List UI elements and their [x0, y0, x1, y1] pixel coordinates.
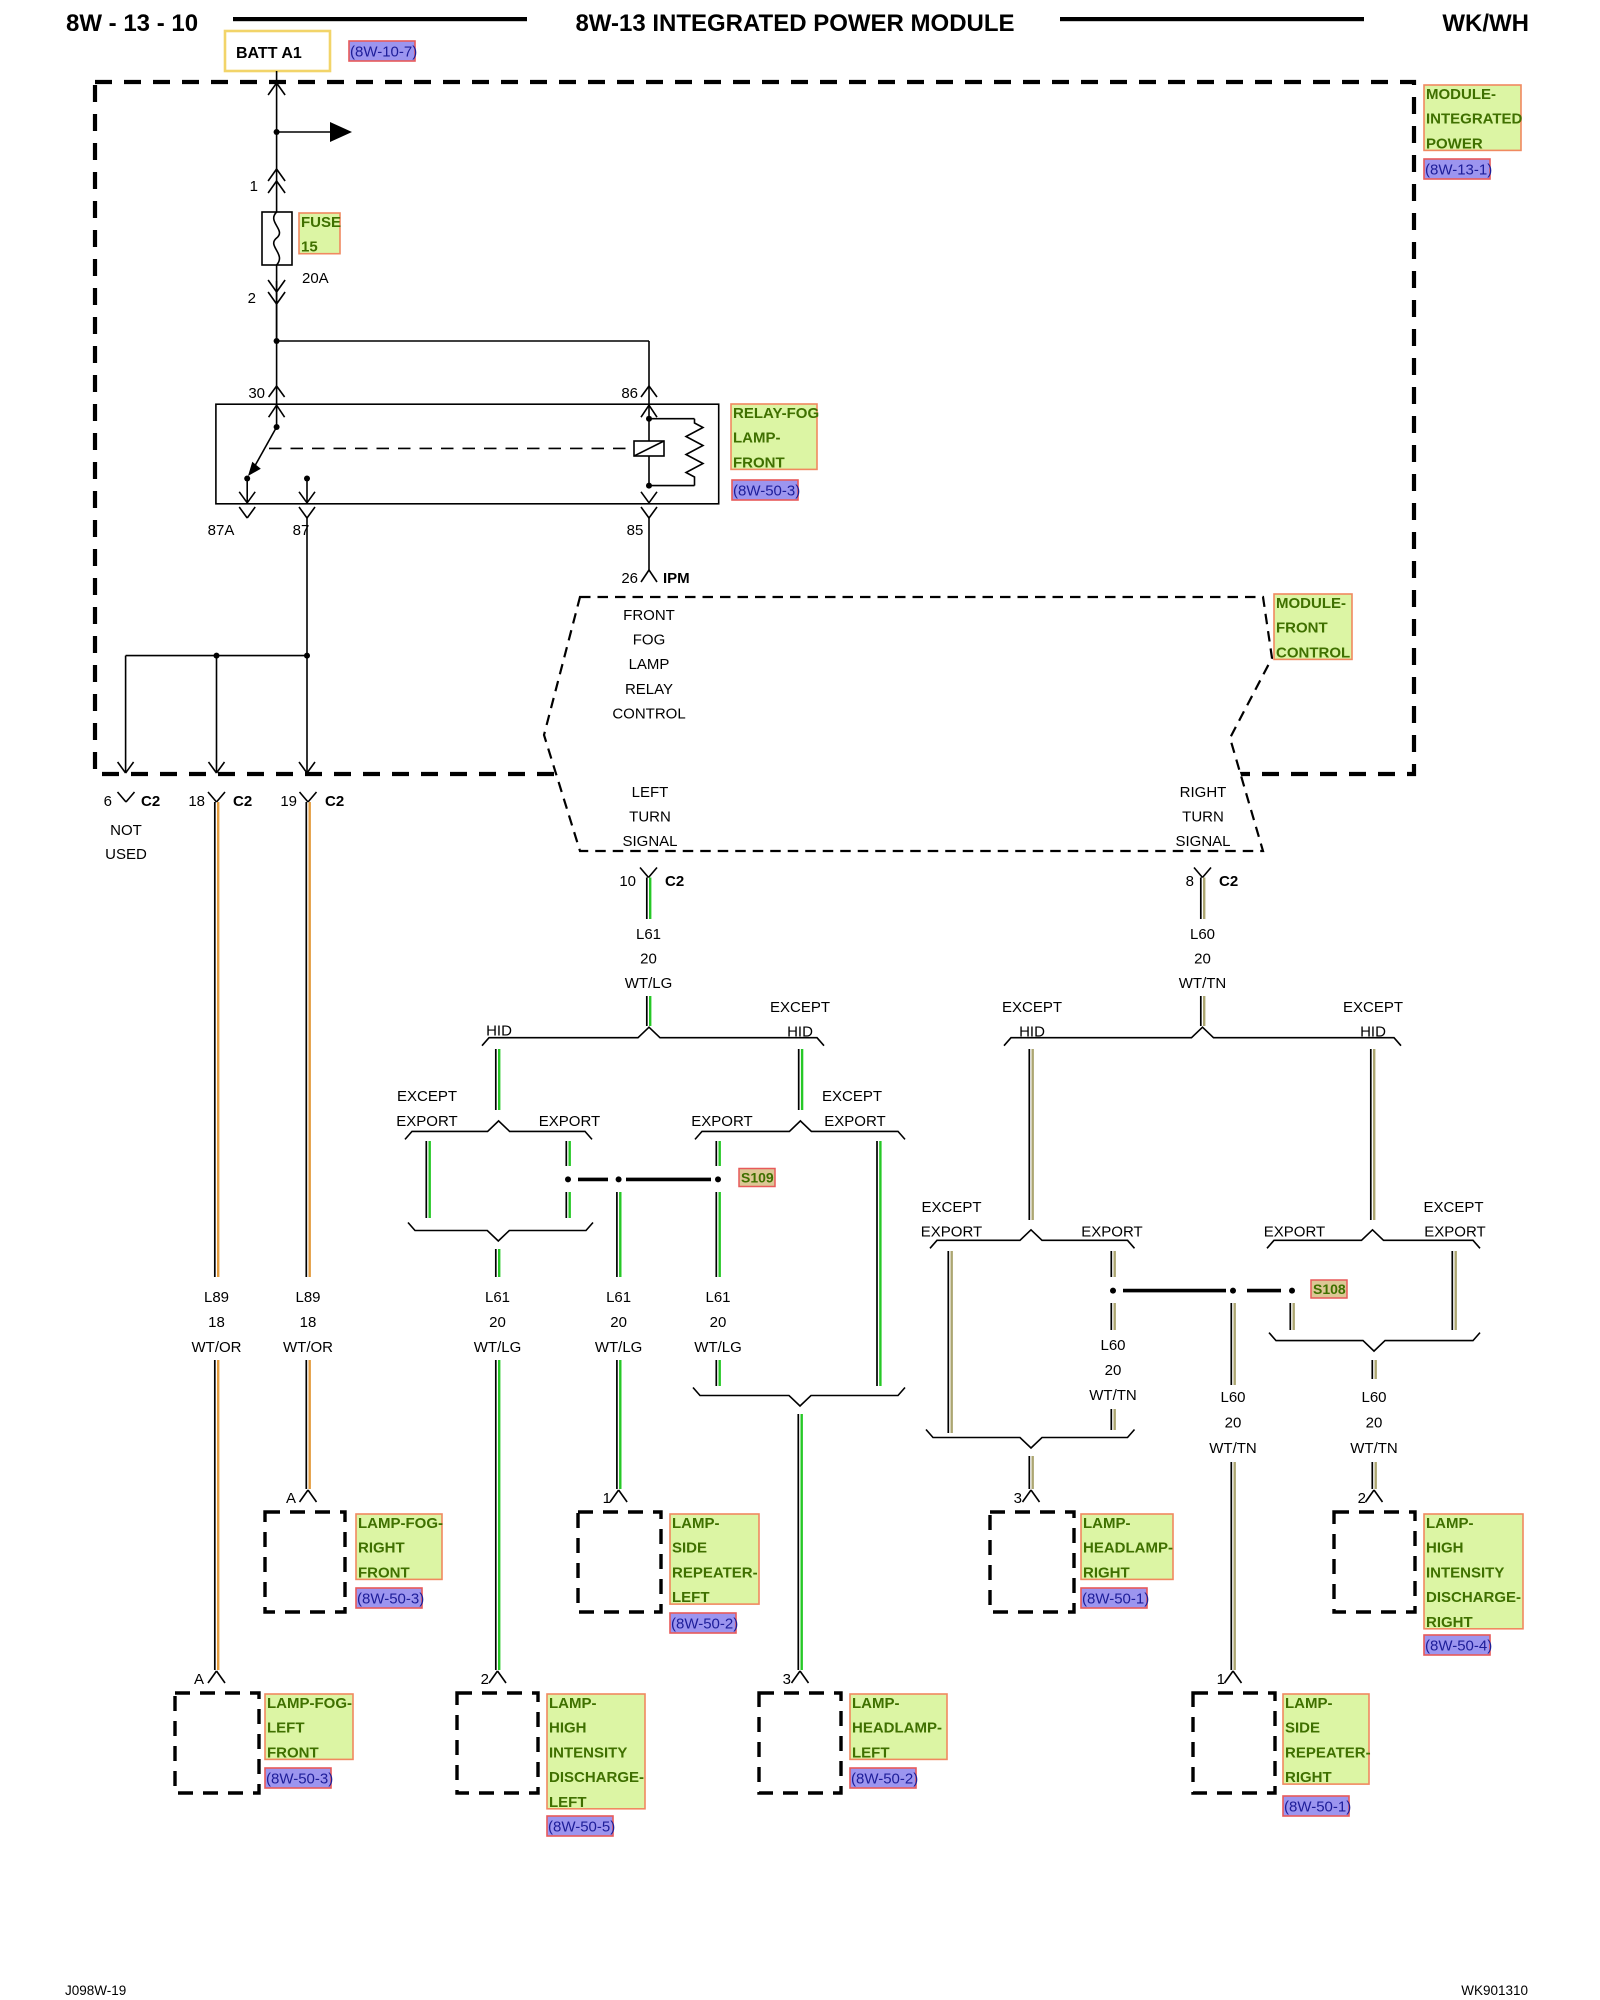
svg-text:CONTROL: CONTROL — [1276, 644, 1350, 661]
svg-text:LAMP-FOG-: LAMP-FOG- — [358, 1515, 443, 1532]
svg-text:2: 2 — [481, 1671, 489, 1688]
svg-text:S108: S108 — [1313, 1281, 1346, 1297]
svg-text:L60: L60 — [1190, 926, 1215, 943]
svg-text:3: 3 — [1014, 1490, 1022, 1507]
svg-text:L60: L60 — [1100, 1337, 1125, 1354]
svg-text:1: 1 — [1217, 1671, 1225, 1688]
svg-text:IPM: IPM — [663, 570, 690, 587]
svg-text:L61: L61 — [606, 1289, 631, 1306]
svg-text:HID: HID — [1019, 1024, 1045, 1041]
svg-text:WT/TN: WT/TN — [1179, 975, 1226, 992]
svg-text:(8W-50-3): (8W-50-3) — [357, 1591, 424, 1608]
svg-text:RELAY-FOG: RELAY-FOG — [733, 405, 819, 422]
svg-text:(8W-50-3): (8W-50-3) — [733, 483, 800, 500]
svg-text:WT/LG: WT/LG — [625, 975, 673, 992]
svg-text:RELAY: RELAY — [625, 681, 673, 698]
svg-text:EXCEPT: EXCEPT — [397, 1088, 457, 1105]
svg-text:DISCHARGE-: DISCHARGE- — [1426, 1589, 1521, 1606]
svg-text:INTEGRATED: INTEGRATED — [1426, 111, 1523, 128]
svg-text:FRONT: FRONT — [1276, 620, 1328, 637]
svg-text:WK901310: WK901310 — [1461, 1983, 1528, 1998]
svg-text:L61: L61 — [636, 926, 661, 943]
svg-text:EXPORT: EXPORT — [1081, 1223, 1142, 1240]
svg-text:A: A — [194, 1671, 204, 1688]
svg-text:20: 20 — [1194, 951, 1211, 968]
svg-text:1: 1 — [250, 178, 258, 195]
svg-text:L61: L61 — [485, 1289, 510, 1306]
svg-text:19: 19 — [280, 793, 297, 810]
svg-text:(8W-50-5): (8W-50-5) — [548, 1819, 615, 1836]
svg-text:EXCEPT: EXCEPT — [1343, 999, 1403, 1016]
svg-text:INTENSITY: INTENSITY — [549, 1744, 627, 1761]
svg-text:REPEATER-: REPEATER- — [1285, 1744, 1371, 1761]
svg-text:C2: C2 — [665, 873, 684, 890]
svg-text:REPEATER-: REPEATER- — [672, 1564, 758, 1581]
svg-text:10: 10 — [619, 873, 636, 890]
svg-text:LAMP-: LAMP- — [672, 1515, 720, 1532]
svg-text:LAMP-: LAMP- — [733, 430, 781, 447]
svg-text:20: 20 — [710, 1314, 727, 1331]
svg-text:20: 20 — [610, 1314, 627, 1331]
svg-text:SIGNAL: SIGNAL — [1175, 833, 1230, 850]
svg-text:RIGHT: RIGHT — [1083, 1564, 1130, 1581]
svg-text:EXCEPT: EXCEPT — [822, 1088, 882, 1105]
svg-text:EXCEPT: EXCEPT — [1002, 999, 1062, 1016]
svg-text:8W - 13 - 10: 8W - 13 - 10 — [66, 10, 198, 37]
svg-text:WT/TN: WT/TN — [1209, 1440, 1256, 1457]
svg-text:LAMP: LAMP — [629, 656, 670, 673]
svg-text:3: 3 — [783, 1671, 791, 1688]
svg-text:30: 30 — [248, 385, 265, 402]
svg-text:WK/WH: WK/WH — [1442, 10, 1529, 37]
svg-text:WT/OR: WT/OR — [192, 1339, 242, 1356]
svg-text:BATT A1: BATT A1 — [236, 45, 302, 62]
svg-text:L60: L60 — [1220, 1389, 1245, 1406]
svg-text:MODULE-: MODULE- — [1276, 595, 1346, 612]
svg-text:FRONT: FRONT — [358, 1564, 410, 1581]
svg-text:EXCEPT: EXCEPT — [921, 1199, 981, 1216]
svg-text:6: 6 — [104, 793, 112, 810]
svg-text:WT/LG: WT/LG — [595, 1339, 643, 1356]
svg-text:WT/TN: WT/TN — [1089, 1387, 1136, 1404]
svg-text:HID: HID — [486, 1023, 512, 1040]
svg-text:HID: HID — [787, 1024, 813, 1041]
svg-text:C2: C2 — [141, 793, 160, 810]
svg-text:C2: C2 — [233, 793, 252, 810]
svg-text:WT/LG: WT/LG — [474, 1339, 522, 1356]
svg-text:INTENSITY: INTENSITY — [1426, 1564, 1504, 1581]
svg-text:LEFT: LEFT — [852, 1744, 890, 1761]
svg-text:C2: C2 — [1219, 873, 1238, 890]
svg-text:L89: L89 — [295, 1289, 320, 1306]
svg-text:DISCHARGE-: DISCHARGE- — [549, 1769, 644, 1786]
svg-text:(8W-50-1): (8W-50-1) — [1284, 1799, 1351, 1816]
svg-text:20: 20 — [1225, 1414, 1242, 1431]
svg-text:LAMP-: LAMP- — [1285, 1695, 1333, 1712]
svg-text:18: 18 — [300, 1314, 317, 1331]
svg-text:RIGHT: RIGHT — [1285, 1769, 1332, 1786]
svg-text:15: 15 — [301, 239, 318, 256]
svg-text:WT/LG: WT/LG — [694, 1339, 742, 1356]
svg-text:18: 18 — [208, 1314, 225, 1331]
svg-text:CONTROL: CONTROL — [612, 705, 685, 722]
svg-text:MODULE-: MODULE- — [1426, 86, 1496, 103]
svg-text:WT/OR: WT/OR — [283, 1339, 333, 1356]
svg-text:18: 18 — [188, 793, 205, 810]
svg-text:L61: L61 — [705, 1289, 730, 1306]
svg-text:20: 20 — [1105, 1362, 1122, 1379]
svg-text:LEFT: LEFT — [672, 1589, 710, 1606]
svg-text:EXPORT: EXPORT — [1264, 1223, 1325, 1240]
svg-text:(8W-50-2): (8W-50-2) — [671, 1616, 738, 1633]
svg-text:85: 85 — [627, 522, 644, 539]
svg-text:EXPORT: EXPORT — [1424, 1223, 1485, 1240]
svg-text:2: 2 — [1358, 1490, 1366, 1507]
svg-text:RIGHT: RIGHT — [1426, 1614, 1473, 1631]
svg-text:20: 20 — [1366, 1414, 1383, 1431]
svg-text:LAMP-: LAMP- — [549, 1695, 597, 1712]
svg-text:8: 8 — [1186, 873, 1194, 890]
svg-text:LAMP-FOG-: LAMP-FOG- — [267, 1695, 352, 1712]
svg-text:86: 86 — [621, 385, 638, 402]
svg-text:HEADLAMP-: HEADLAMP- — [852, 1720, 942, 1737]
svg-text:SIDE: SIDE — [1285, 1720, 1320, 1737]
svg-text:(8W-50-1): (8W-50-1) — [1082, 1591, 1149, 1608]
svg-text:S109: S109 — [741, 1170, 774, 1186]
svg-text:EXPORT: EXPORT — [691, 1113, 752, 1130]
svg-text:EXPORT: EXPORT — [824, 1113, 885, 1130]
svg-text:J098W-19: J098W-19 — [65, 1983, 126, 1998]
svg-text:L89: L89 — [204, 1289, 229, 1306]
svg-text:(8W-50-3): (8W-50-3) — [266, 1771, 333, 1788]
svg-text:TURN: TURN — [1182, 809, 1224, 826]
svg-text:A: A — [286, 1490, 296, 1507]
svg-text:FOG: FOG — [633, 632, 666, 649]
svg-text:87A: 87A — [208, 522, 235, 539]
svg-text:26: 26 — [621, 570, 638, 587]
svg-text:2: 2 — [248, 290, 256, 307]
svg-text:LAMP-: LAMP- — [852, 1695, 900, 1712]
svg-text:LAMP-: LAMP- — [1426, 1515, 1474, 1532]
svg-text:NOT: NOT — [110, 822, 142, 839]
svg-text:(8W-13-1): (8W-13-1) — [1425, 162, 1492, 179]
svg-text:FRONT: FRONT — [267, 1744, 319, 1761]
svg-text:EXPORT: EXPORT — [921, 1223, 982, 1240]
svg-text:RIGHT: RIGHT — [358, 1540, 405, 1557]
svg-text:SIDE: SIDE — [672, 1540, 707, 1557]
svg-text:EXCEPT: EXCEPT — [1423, 1199, 1483, 1216]
svg-text:LEFT: LEFT — [549, 1794, 587, 1811]
svg-text:HID: HID — [1360, 1024, 1386, 1041]
svg-text:LAMP-: LAMP- — [1083, 1515, 1131, 1532]
svg-text:FUSE: FUSE — [301, 214, 341, 231]
svg-text:(8W-50-2): (8W-50-2) — [851, 1771, 918, 1788]
svg-text:20A: 20A — [302, 270, 329, 287]
svg-text:RIGHT: RIGHT — [1180, 784, 1227, 801]
svg-text:FRONT: FRONT — [623, 607, 675, 624]
svg-text:C2: C2 — [325, 793, 344, 810]
svg-text:HEADLAMP-: HEADLAMP- — [1083, 1540, 1173, 1557]
svg-text:EXPORT: EXPORT — [396, 1113, 457, 1130]
svg-text:POWER: POWER — [1426, 135, 1483, 152]
svg-text:LEFT: LEFT — [267, 1720, 305, 1737]
svg-text:WT/TN: WT/TN — [1350, 1440, 1397, 1457]
svg-text:USED: USED — [105, 846, 147, 863]
svg-text:TURN: TURN — [629, 809, 671, 826]
svg-text:L60: L60 — [1361, 1389, 1386, 1406]
svg-text:HIGH: HIGH — [1426, 1540, 1464, 1557]
svg-text:LEFT: LEFT — [632, 784, 669, 801]
svg-text:EXCEPT: EXCEPT — [770, 999, 830, 1016]
svg-text:20: 20 — [489, 1314, 506, 1331]
svg-text:1: 1 — [603, 1490, 611, 1507]
svg-text:8W-13 INTEGRATED POWER MODULE: 8W-13 INTEGRATED POWER MODULE — [575, 10, 1014, 37]
svg-text:HIGH: HIGH — [549, 1720, 587, 1737]
svg-text:(8W-50-4): (8W-50-4) — [1425, 1638, 1492, 1655]
svg-text:FRONT: FRONT — [733, 454, 785, 471]
svg-text:EXPORT: EXPORT — [539, 1113, 600, 1130]
svg-text:(8W-10-7): (8W-10-7) — [350, 44, 417, 61]
svg-text:20: 20 — [640, 951, 657, 968]
svg-text:SIGNAL: SIGNAL — [622, 833, 677, 850]
